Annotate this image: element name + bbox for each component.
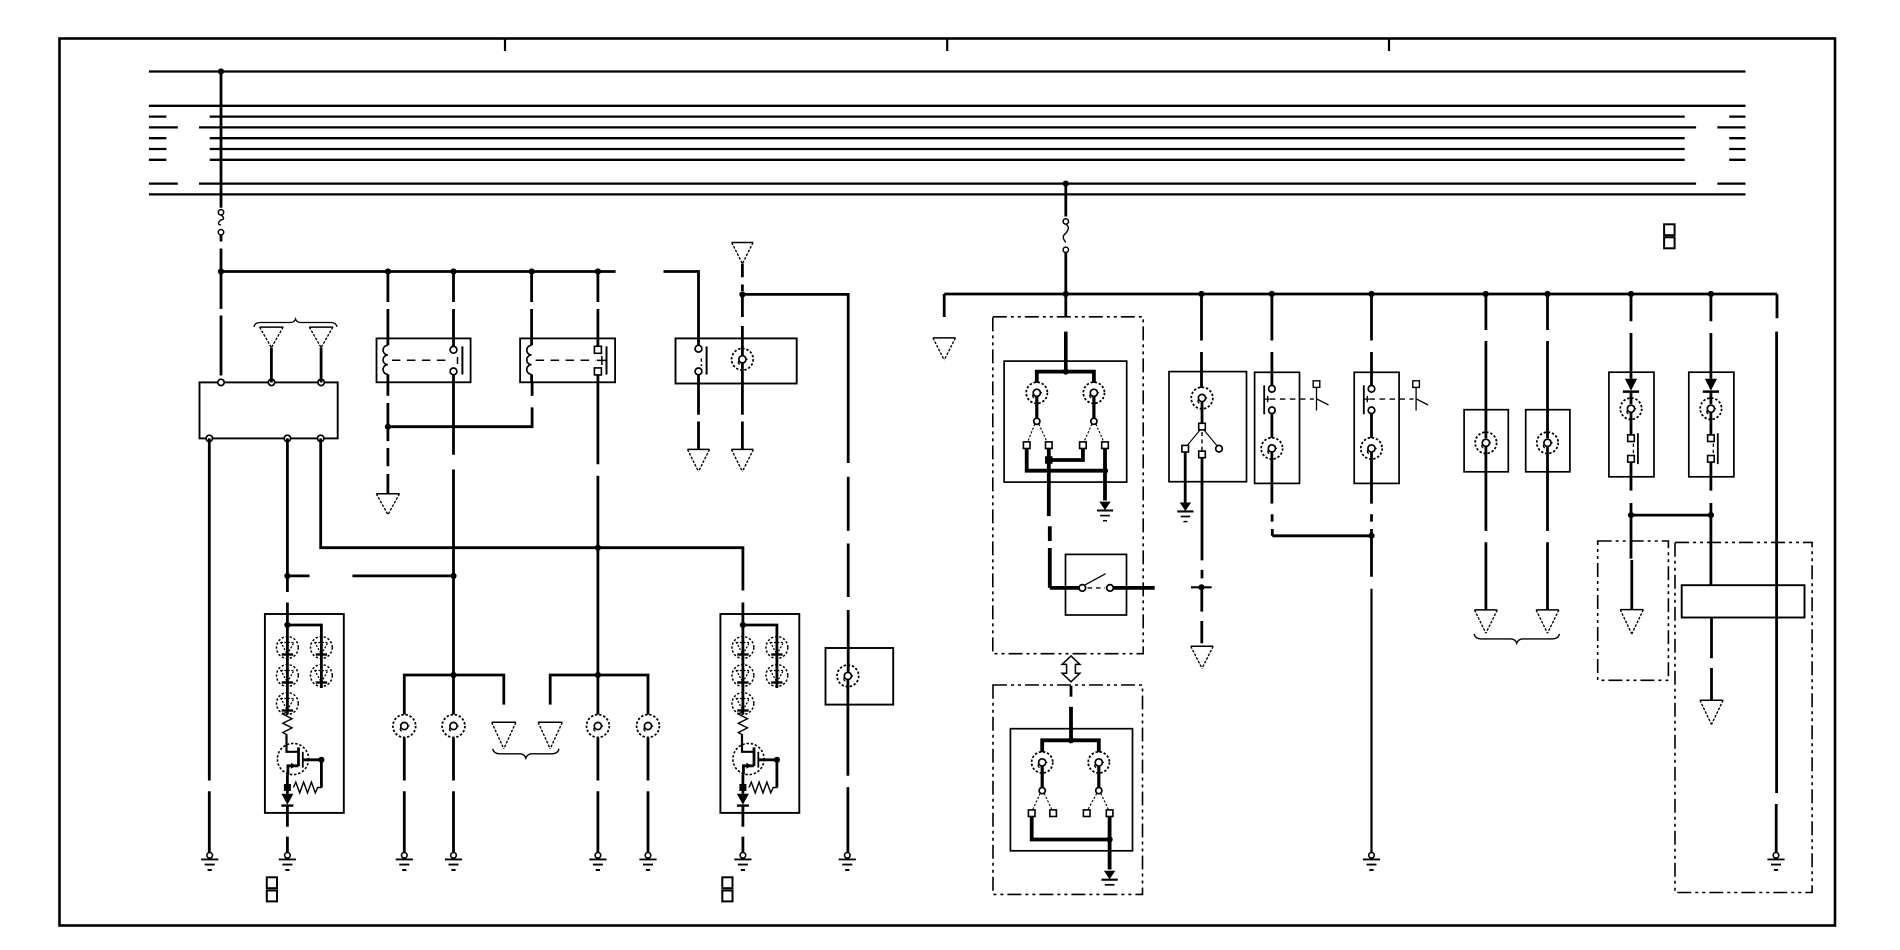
bus wire W2: [149, 105, 1746, 107]
wire: L11 to switch pin: [1201, 402, 1204, 423]
contact square 1b: [1046, 442, 1053, 449]
bus wire W6: [149, 148, 1746, 150]
wire: Q1 source A2: [743, 766, 754, 775]
contact: SW-D1 upper: [1269, 386, 1276, 393]
contact: lower wiper 2: [1096, 788, 1102, 794]
wire: rail to K2 contact: [597, 272, 600, 339]
wire: L10 to contact: [1097, 766, 1100, 787]
contact: S3 right: [1216, 445, 1223, 452]
wire: rail to K1 coil: [386, 272, 389, 339]
node: rail tap tail lamp 1: [1628, 291, 1634, 297]
bus wire W8: [149, 182, 1746, 184]
switch bar TL1: [1637, 433, 1639, 464]
lamp ML1: [1475, 432, 1496, 453]
node: gate junction A2: [774, 757, 780, 763]
LED D1 A2: [732, 637, 754, 659]
node: rail tap interior lamp: [1198, 291, 1204, 297]
wire: gapped link pin5 to K1 contact line: [287, 575, 453, 578]
wire: lamp branch: [1037, 372, 1094, 383]
LED D4 A1: [311, 637, 333, 659]
lamp ML2: [1537, 432, 1558, 453]
pin: U1 bottom pin 4: [206, 435, 212, 441]
wire: D6 out A1: [286, 806, 289, 853]
LED D1 A1: [277, 637, 299, 659]
wire: rail to K2 coil: [530, 272, 533, 339]
lamp TL1: [1620, 398, 1641, 419]
fuse F1: [218, 210, 223, 235]
node: lamp feed junction: [739, 291, 745, 297]
diode TL2: [1705, 379, 1717, 391]
ground G13: [639, 853, 656, 871]
bus wire W4: [149, 126, 1746, 128]
LED D5 A2: [766, 665, 788, 687]
node: link at TL1: [1628, 512, 1634, 518]
pin: U1 bottom pin 5: [284, 435, 290, 441]
LED D3 A1: [277, 693, 299, 715]
lamp L5: [587, 715, 610, 738]
converter unit box: [1682, 585, 1805, 617]
wire: rail to K1 contact: [452, 272, 455, 339]
contact: lower wiper 1: [1039, 788, 1045, 794]
contact square 1a: [1023, 442, 1030, 449]
wire: L6 to ground: [647, 738, 650, 853]
connector marks C2: [722, 877, 732, 888]
lamp L1 in box B1: [732, 349, 754, 371]
wire: unit out to ground arrow: [1710, 618, 1713, 701]
wire: gate pulldown A2: [776, 760, 779, 788]
dashed actuator link SW-D2: [1370, 398, 1414, 400]
courtesy switch box: [1066, 554, 1127, 615]
wire: U1 pin5 drop: [286, 438, 289, 614]
lamp TL2: [1700, 398, 1721, 419]
wire: lower lamp branch: [1042, 740, 1099, 752]
switch S2 arm: [1084, 574, 1105, 586]
wire: A1 left LED string: [286, 625, 289, 715]
node: link at K1 contact line: [450, 573, 456, 579]
diode D6 A2: [742, 788, 745, 794]
connector marks C1: [267, 877, 277, 888]
LED D2 A1: [277, 665, 299, 687]
dashed actuator link SW-D1: [1270, 398, 1314, 400]
ground G18 (filled): [1177, 503, 1193, 521]
wire: 4b to ground: [1108, 817, 1112, 870]
node: lamp branch junction: [1063, 369, 1069, 375]
tail lamp box TL2: [1689, 372, 1734, 477]
node: rail tap door switch 2: [1368, 291, 1374, 297]
wire: feed drop to control unit U1: [220, 272, 223, 376]
wire: rail to ML1: [1485, 294, 1488, 438]
wire: L4 to ground: [452, 738, 455, 853]
wire: S2 output: [1113, 586, 1154, 590]
wire: Q1 gate A2: [758, 758, 777, 761]
wire: output to courtesy switch: [1050, 586, 1079, 590]
wire: rail to SW-D2: [1370, 294, 1373, 385]
resistor R1 A2: [738, 712, 747, 736]
wire: G4 stem: [741, 264, 744, 291]
wire: rail stub to switch box B1: [664, 272, 699, 339]
switch bar SW-D2: [1363, 385, 1365, 414]
node: rail tap marker lamp 1: [1483, 291, 1489, 297]
wire: coil common link: [388, 407, 532, 426]
fuse F2: [1063, 219, 1068, 253]
door switch box SW-D2: [1354, 372, 1399, 483]
ground G11: [445, 853, 462, 871]
wire: rail to TL1: [1630, 294, 1633, 379]
node: rail tap door switch 1: [1269, 291, 1275, 297]
border section tick 1: [504, 40, 506, 52]
ground arrow G4 above lamp feed: [732, 243, 753, 264]
wire: SW-D2 out: [1370, 483, 1373, 576]
node: link junction: [1045, 456, 1053, 464]
lamp box E: [826, 648, 894, 705]
wire: fuse F2 to rail: [1064, 253, 1067, 295]
marker lamp box ML1: [1464, 410, 1508, 472]
wire: K1 coil out: [386, 382, 389, 426]
switch S3 arms: [1187, 430, 1217, 446]
ground arrow G9: [538, 722, 562, 749]
underbrace below ground arrows: [493, 749, 559, 758]
wire: A2 feed tee: [742, 614, 745, 625]
wire: A1 feed tee: [286, 614, 289, 625]
pin: U1 top pin 3: [318, 379, 324, 385]
wire: diode to lamp TL2: [1710, 392, 1713, 404]
wire: rail to interior lamp: [1200, 294, 1203, 388]
ground G16 (filled): [1097, 502, 1113, 520]
relay contact pins: [597, 338, 600, 346]
lamp L3: [393, 715, 416, 738]
wire: G1 stem: [270, 348, 273, 383]
relay contact pins: [452, 338, 455, 346]
node: rail at relay K2 contact: [595, 268, 601, 274]
wire: below junction to ground arrow: [1200, 587, 1203, 643]
node: rail at relay K1 contact: [450, 268, 456, 274]
wire: gate pulldown A1: [320, 760, 323, 788]
wire: fuse F1 to rail: [220, 235, 223, 269]
wire: L9 to contact: [1041, 766, 1044, 787]
ground A2: [734, 853, 751, 871]
lamp L2: [837, 665, 859, 687]
wire: diode to lamp TL1: [1630, 392, 1633, 404]
contact square 2b: [1102, 442, 1109, 449]
ground G7: [839, 853, 856, 871]
node: gate junction A1: [318, 757, 324, 763]
node: rail at relay K1 coil: [385, 268, 391, 274]
ground arrow ML1: [1475, 610, 1498, 633]
wire: rail to ML2: [1546, 294, 1549, 438]
diode TL1: [1625, 379, 1637, 391]
switch S1 bar: [706, 346, 708, 374]
contact: switch wiper 1: [1034, 418, 1040, 424]
ground G14: [201, 853, 218, 871]
switch arms 1: [1028, 424, 1047, 441]
wire: Q1 source A1: [288, 766, 299, 775]
node: bus tap left feed: [218, 68, 224, 74]
wire: R1 to Q1 drain A2: [742, 735, 754, 752]
tail light LED assembly A1: [265, 614, 344, 813]
switch arms 2: [1084, 424, 1103, 441]
bus wire W1: [149, 70, 1746, 72]
contact square 3a: [1028, 810, 1035, 817]
ground arrow G3: [376, 494, 399, 515]
bus wire W3: [149, 115, 1746, 117]
switch dashed link TL1: [1632, 444, 1634, 456]
node: A1 feed junction: [284, 622, 290, 628]
LED D2 A2: [732, 665, 754, 687]
border section tick 2: [946, 40, 948, 52]
wire: lamp to switch TL2: [1710, 413, 1713, 435]
ground G10: [396, 853, 413, 871]
LED D3 A2: [732, 693, 754, 715]
node: rail tap tail lamp 2: [1708, 291, 1714, 297]
relay box: [377, 338, 471, 382]
lamp in SW-D1: [1261, 438, 1282, 459]
wire: S1 out to ground arrow: [697, 384, 700, 450]
contact: S3 left square: [1182, 445, 1189, 452]
wire: rail left end stub: [943, 294, 946, 317]
resistor R1 A1: [283, 712, 292, 736]
plunger tick SW-D2: [1364, 396, 1369, 402]
bus wire W5: [149, 137, 1746, 139]
pin: U1 top pin 1: [218, 379, 224, 385]
node: lower branch junction: [1068, 737, 1074, 743]
diode D6 A1: [286, 788, 289, 794]
wire: ML1 out: [1485, 447, 1488, 610]
overbrace above U1 inputs: [254, 319, 337, 327]
wire: right lamp tee: [550, 675, 648, 715]
interior lamp box: [1169, 372, 1247, 482]
bus wire W7: [149, 159, 1746, 161]
lamp L4: [442, 715, 465, 738]
wire: A1 right LED string: [320, 638, 323, 688]
door switch box SW-D1: [1255, 372, 1300, 483]
wire: junction to E-lamp drop: [742, 294, 848, 463]
tail light LED assembly A2: [720, 614, 799, 813]
trailer converter box (dash-dot) right: [1675, 542, 1812, 892]
LED D4 A2: [766, 637, 788, 659]
node: rail at feed: [1063, 291, 1069, 297]
wire: L3 to ground: [403, 738, 406, 853]
wire: G2 stem: [320, 348, 323, 383]
option box (dash-dot) left: [1598, 541, 1669, 680]
wire: SW-D2 lamp out: [1370, 452, 1373, 483]
underbrace below marker grounds: [1474, 634, 1559, 643]
contact: SW-D2 lower: [1368, 407, 1375, 414]
wire: left feed drop: [220, 72, 223, 208]
wire: link to K2 coil out: [531, 382, 534, 396]
lamp in SW-D2: [1361, 438, 1382, 459]
node: link junction at SW-D2 wire: [1368, 533, 1374, 539]
ground arrow G8: [492, 722, 516, 749]
ground A1: [279, 853, 296, 871]
contact square 3b: [1050, 810, 1057, 817]
node: tee1 junction: [450, 672, 456, 678]
node: link at TL2: [1708, 512, 1714, 518]
wire: left power rail: [221, 270, 616, 273]
ground arrow ML2: [1536, 610, 1559, 633]
MOSFET Q1 A1: [277, 743, 308, 774]
node: coil common junction: [385, 424, 391, 430]
marker lamp box ML2: [1526, 410, 1570, 472]
wire: Q1 gate A1: [303, 758, 322, 761]
ground G20: [1363, 853, 1380, 871]
wire: SW-D1 lamp out: [1271, 452, 1274, 483]
switch bar TL2: [1717, 433, 1719, 464]
wire: feed to lamp branch: [1069, 707, 1073, 741]
switch dashed link TL2: [1712, 444, 1714, 456]
wire: tail lamp common link: [1631, 514, 1711, 517]
relay coil: [386, 338, 389, 345]
ground arrow G1 (dashed triangle): [260, 327, 284, 348]
switch S1 dashed link: [700, 359, 702, 367]
node: source junction A2: [739, 784, 746, 791]
wire: common drop to ground: [1370, 589, 1372, 852]
wire: S3 center output: [1201, 458, 1204, 579]
wire: junction to lamp L1: [741, 294, 744, 355]
wire: 2b to ground: [1103, 449, 1107, 501]
resistor R2 A2: [749, 782, 778, 793]
border section tick 3: [1388, 40, 1390, 52]
contact: S3 center square: [1199, 451, 1206, 458]
switch contacts TL2: [1708, 435, 1715, 442]
contact: SW-D1 lower: [1269, 407, 1276, 414]
node: source junction A1: [284, 784, 291, 791]
switch S3 dashed center: [1201, 432, 1203, 451]
wire: door switch link: [1272, 534, 1371, 537]
node: rail at relay K2 coil: [529, 268, 535, 274]
wire: stem to ground arrow: [1630, 560, 1633, 610]
ground G17 (filled): [1102, 872, 1118, 885]
relay box: [520, 338, 615, 382]
ground arrow G21: [1620, 610, 1643, 634]
switch S2 dashed link: [1088, 587, 1106, 589]
ground arrow G2 (dashed triangle): [309, 327, 333, 348]
indicator lamp L10: [1088, 752, 1109, 773]
node: bus tap right feed: [1063, 181, 1069, 187]
tail lamp box TL1: [1609, 372, 1654, 477]
ground arrow G22: [1700, 700, 1723, 724]
wire: L5 to ground: [597, 738, 600, 853]
wire: tee1 center drop: [452, 675, 455, 715]
ground arrow G6: [731, 449, 753, 471]
node: tee2 junction: [595, 672, 601, 678]
actuator symbol SW-D2: [1413, 381, 1420, 388]
wire: SW-D2 to lamp: [1370, 414, 1373, 438]
contact square 4a: [1083, 810, 1090, 817]
wire: 1b to 2a link: [1049, 449, 1083, 461]
LED D5 A1: [311, 665, 333, 687]
wire: A2 right LED string: [776, 638, 779, 688]
wire: R1 to Q1 drain A1: [287, 735, 299, 752]
indicator lamp L8: [1083, 382, 1104, 403]
ground arrow G5: [688, 449, 710, 471]
relay armature bar: [461, 346, 463, 374]
relay actuation dashed link: [392, 359, 452, 361]
node: rail tap marker lamp 2: [1544, 291, 1550, 297]
contact square 2a: [1080, 442, 1087, 449]
contact square 4b: [1106, 810, 1113, 817]
lower switch arms 2: [1088, 793, 1108, 809]
connector marks C3: [1664, 224, 1675, 235]
wire: L2 out to ground: [847, 680, 850, 852]
node: A2 feed junction: [740, 622, 746, 628]
plunger tick SW-D1: [1265, 396, 1270, 402]
node: rail at feed: [218, 268, 224, 274]
wire: left lamp tee: [404, 675, 504, 715]
wire: S2 output dashed continuation: [1191, 586, 1212, 588]
wire: S3 left to ground: [1184, 452, 1187, 503]
contact: SW-D2 upper: [1368, 386, 1375, 393]
wire: feed into switch assembly: [1064, 294, 1067, 317]
contact: switch wiper 2: [1091, 418, 1097, 424]
wire: A2 left LED string: [742, 625, 745, 715]
indicator lamp L9: [1032, 752, 1053, 773]
pin: U1 top pin 2: [268, 379, 274, 385]
wire: TL1 output: [1630, 462, 1633, 515]
wire: K2 contact out: [597, 382, 600, 675]
MOSFET Q1 A2: [733, 743, 764, 774]
node: junction with interior lamp wire: [1198, 584, 1204, 590]
wire: feed tick into lower assembly: [1070, 686, 1073, 697]
ground arrow G15: [933, 338, 956, 360]
wire: K1 contact out: [452, 382, 455, 675]
resistor R2 A1: [293, 782, 321, 793]
ground G23: [1767, 853, 1784, 871]
combination switch inner box: [1004, 361, 1127, 482]
double-arrow link symbol: [1062, 656, 1080, 682]
switch S1 contacts: [697, 338, 700, 345]
relay coil: [530, 338, 533, 345]
node: ground link junction: [1102, 468, 1108, 474]
wire: TL2 drop into trailer box: [1710, 515, 1713, 585]
lower switch inner box: [1010, 729, 1132, 851]
node: feed tap at K2 contact line: [595, 545, 601, 551]
switch assembly outline (dash-dot): [993, 317, 1143, 654]
wire: long drop to lamp box E: [847, 477, 850, 672]
lower switch arms 1: [1033, 793, 1052, 809]
wire: L1 out: [741, 363, 744, 383]
wire: 1a to 2b link: [1027, 449, 1105, 471]
wire: tee2 center drop: [597, 675, 600, 715]
control unit U1: [200, 382, 338, 438]
wire: ML2 out: [1546, 447, 1549, 610]
switch bar SW-D1: [1263, 385, 1265, 414]
wire: right feed drop: [1064, 184, 1067, 217]
ground G12: [589, 853, 606, 871]
wire: right power rail: [944, 293, 1777, 296]
wire: SW-D1 out to link: [1271, 483, 1274, 535]
node: lower ground junction: [1107, 836, 1113, 842]
wire: U1 pin4 drop to ground: [208, 438, 211, 852]
relay armature bar: [606, 346, 608, 374]
wire: TL1 drop into option box: [1630, 515, 1633, 559]
actuator symbol SW-D1: [1313, 381, 1320, 388]
indicator lamp L7: [1026, 382, 1047, 403]
relay actuation dashed link: [536, 359, 596, 361]
bus wire W9: [149, 193, 1746, 195]
wire: coil common to ground arrow: [386, 427, 389, 494]
switch contacts TL1: [1628, 435, 1635, 442]
wire: D6 out A2: [742, 806, 745, 853]
lamp L11: [1191, 387, 1213, 409]
lamp L6: [637, 715, 660, 738]
wire: U1 pin6 to cluster A2 feed: [321, 438, 743, 614]
wire: rail right end drop: [1775, 294, 1779, 852]
wire: L8 to contact: [1092, 397, 1095, 419]
wire: TL2 output: [1710, 462, 1713, 515]
wire: rail to TL2: [1710, 294, 1713, 379]
wire: lamp to switch TL1: [1630, 413, 1633, 435]
wire: L1 out to ground arrow: [741, 384, 744, 450]
